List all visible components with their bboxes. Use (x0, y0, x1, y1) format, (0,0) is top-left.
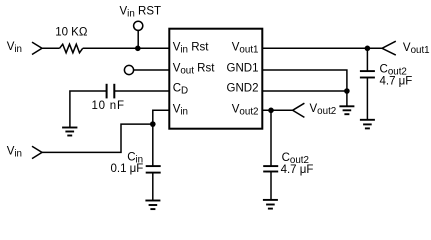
svg-text:Vin Rst: Vin Rst (173, 41, 210, 55)
wire circle to IC pin Vout Rst (134, 69, 170, 71)
svg-text:Vout2: Vout2 (310, 103, 337, 117)
svg-text:Vout2: Vout2 (232, 103, 259, 117)
terminal circle Vin RST (134, 21, 143, 30)
svg-text:Vin: Vin (7, 41, 22, 55)
capacitor Cout2 4.7 uF (right) (360, 70, 375, 72)
wire IC pin Vout2 to output arrow (262, 109, 292, 111)
junction dot on Vin Rst wire (135, 46, 141, 52)
svg-text:Vout Rst: Vout Rst (173, 62, 216, 76)
svg-text:Vout1: Vout1 (403, 42, 430, 56)
input arrow Vin bottom (32, 146, 42, 158)
wire node to bottom Vin input (42, 124, 153, 152)
svg-text:Vin: Vin (7, 146, 22, 160)
terminal circle Vout Rst (124, 65, 133, 74)
wire Cin to ground (152, 173, 154, 201)
output arrow Vout2 (293, 103, 305, 117)
svg-text:4.7 μF: 4.7 μF (380, 75, 413, 87)
svg-text:10 KΩ: 10 KΩ (55, 26, 88, 38)
junction dot Vin/Cin node (150, 121, 156, 127)
ground (Cout2 bottom) (263, 200, 278, 209)
wire Cout2 to ground (366, 78, 368, 120)
svg-text:Vin RST: Vin RST (120, 6, 162, 20)
wire circle to junction (137, 30, 139, 48)
wire node down to Cout2 bottom (270, 110, 272, 166)
wire node down to Cout2 right (366, 48, 368, 71)
svg-text:CD: CD (173, 82, 188, 96)
junction dot Vout2/Cout2 node (268, 108, 274, 114)
wire IC pin CD to capacitor (115, 90, 170, 92)
wire IC pin Vin down-left to bottom input (153, 110, 170, 124)
capacitor Cin 0.1 uF (146, 165, 161, 167)
junction dot Vout1/Cout2 node (365, 46, 371, 52)
wire IC pin GND1 right then down (262, 70, 347, 106)
junction dot GND1/GND2 (344, 88, 350, 94)
svg-text:4.7 μF: 4.7 μF (281, 164, 314, 176)
svg-text:Vin: Vin (173, 103, 188, 117)
output arrow Vout1 (382, 41, 396, 55)
wire Cout2 bottom to ground (270, 172, 272, 200)
svg-text:GND2: GND2 (227, 82, 259, 94)
ground (Cin) (145, 201, 160, 210)
wire arrow to resistor (42, 47, 60, 49)
ground (Cout2 right) (360, 120, 375, 129)
capacitor C_D 10 nF (horizontal) (113, 84, 115, 99)
wire node down to Cin (152, 124, 154, 166)
wire IC pin GND2 to same node (262, 90, 347, 92)
op-amp U1 (regulator IC body) (169, 29, 262, 129)
svg-text:10 nF: 10 nF (92, 100, 125, 112)
ground (GND1/GND2) (339, 106, 354, 114)
wire capacitor to ground leg (70, 91, 107, 128)
svg-text:Vout1: Vout1 (232, 41, 259, 55)
resistor R1 10 KOhm zigzag (60, 44, 83, 53)
wire IC pin Vout1 to output arrow (262, 47, 382, 49)
svg-text:0.1 μF: 0.1 μF (111, 163, 144, 175)
capacitor Cout2 4.7 uF (bottom) (263, 165, 278, 167)
input arrow Vin top (32, 42, 42, 54)
svg-text:GND1: GND1 (227, 62, 259, 74)
wire resistor to IC pin Vin Rst (83, 47, 170, 49)
ground (CD) (62, 128, 77, 136)
